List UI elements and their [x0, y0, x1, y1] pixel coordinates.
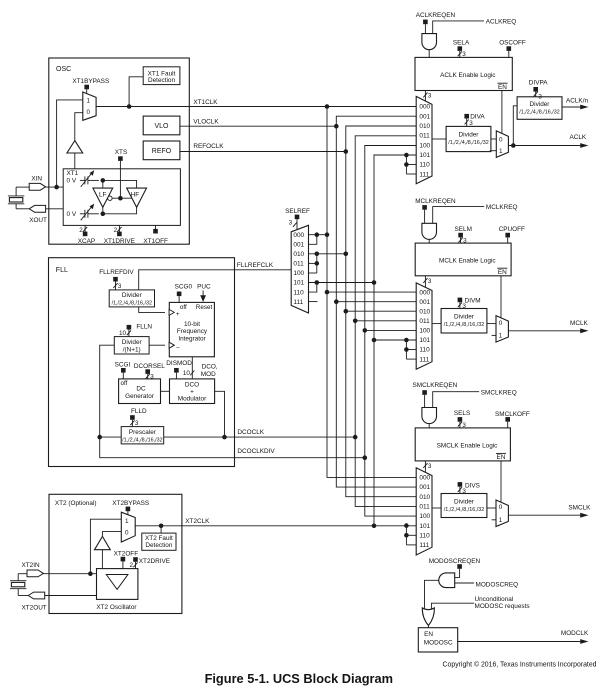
- svg-text:1: 1: [87, 98, 91, 105]
- svg-text:Frequency: Frequency: [177, 328, 208, 335]
- node dot: [353, 319, 358, 324]
- SMCLK Enable Logic box: [415, 428, 510, 461]
- svg-text:001: 001: [419, 113, 430, 120]
- svg-text:010: 010: [419, 123, 430, 130]
- node bottom cap dot: [101, 212, 106, 217]
- node SELREF 011 tie dot: [315, 261, 320, 266]
- amp HF: [127, 188, 147, 207]
- svg-text:001: 001: [419, 484, 430, 491]
- svg-text:+: +: [176, 311, 180, 318]
- SCG1 pin square: [121, 368, 126, 373]
- wire MCLK out: [508, 320, 588, 333]
- gate AND SMCLK request: [422, 408, 437, 424]
- wire failsafe input1 stub: [490, 150, 497, 152]
- wire divider to failsafe mux: [491, 138, 496, 140]
- node V1 top dot: [325, 104, 330, 109]
- wire OR out: [427, 626, 429, 628]
- XT2 Oscillator box: [96, 569, 137, 611]
- wire MODOSCREQEN: [455, 569, 460, 578]
- wire DIVS select: [458, 487, 467, 495]
- svg-text:100: 100: [293, 270, 304, 277]
- capacitor XT1 top: [80, 170, 99, 187]
- svg-text:SMCLKREQEN: SMCLKREQEN: [413, 382, 458, 389]
- wire CPUOFF: [507, 237, 509, 243]
- svg-text:XT2IN: XT2IN: [22, 562, 40, 569]
- wire MCLK 110/111 tie: [406, 340, 416, 359]
- svg-text:SMCLK Enable Logic: SMCLK Enable Logic: [437, 442, 499, 449]
- wire XTS select: [119, 161, 121, 198]
- divider DIVM: [441, 309, 487, 334]
- wire MCLK in 101: [374, 339, 416, 341]
- wire DC gen to DCO: [161, 390, 170, 392]
- bus XT2CLK vertical: [374, 155, 416, 526]
- svg-text:10: 10: [119, 330, 127, 337]
- wire divider to integrator plus: [139, 307, 165, 313]
- wire SELREF in 110 tie: [309, 283, 317, 293]
- SMCLKREQEN label: [413, 382, 458, 389]
- REFO box: [143, 141, 180, 160]
- mux XT2 bypass: [121, 512, 135, 542]
- FLLREFDIV label: [99, 269, 134, 276]
- MCLKREQEN pin square: [422, 205, 427, 210]
- XT1BYPASS label: [72, 78, 109, 85]
- wire XT2IN to mux input 1: [90, 519, 121, 574]
- XT2OUT label: [22, 605, 47, 612]
- svg-text:Copyright © 2016, Texas Instru: Copyright © 2016, Texas Instruments Inco…: [443, 661, 597, 669]
- svg-text:REFOCLK: REFOCLK: [193, 143, 224, 150]
- ACLKREQEN label: [416, 12, 456, 19]
- wire divider to failsafe mux: [487, 323, 496, 325]
- XT1 oscillator box: [63, 169, 180, 226]
- FLLD label: [131, 408, 147, 415]
- svg-text:ACLK: ACLK: [570, 134, 587, 141]
- svg-text:3: 3: [428, 278, 432, 285]
- svg-text:101: 101: [419, 152, 430, 159]
- divider FLLREFDIV: [109, 290, 154, 307]
- svg-text:3: 3: [538, 94, 542, 101]
- wire AND to enable: [428, 239, 430, 243]
- pad XT2IN: [27, 570, 43, 577]
- FLLREFDIV pin square: [113, 277, 118, 282]
- wire DCOCLKDIV: [100, 437, 365, 458]
- wire XT2BYPASS select: [127, 511, 129, 515]
- XTS pin square: [118, 156, 123, 161]
- copyright note: [443, 661, 597, 669]
- mux SMCLK failsafe: [496, 500, 508, 527]
- svg-text:001: 001: [419, 299, 430, 306]
- wire XT2OUT: [45, 595, 97, 597]
- bus REFOCLK vertical: [346, 126, 416, 497]
- FLLN label: [136, 324, 152, 331]
- wire ACLK select 3: [423, 91, 432, 102]
- svg-text:CPUOFF: CPUOFF: [499, 226, 525, 233]
- svg-text:XT2 Fault: XT2 Fault: [145, 535, 173, 542]
- MODOSCREQEN label: [429, 558, 481, 565]
- svg-text:XT1DRIVE: XT1DRIVE: [104, 238, 135, 245]
- svg-text:Unconditional: Unconditional: [475, 596, 514, 603]
- SELREF label: [285, 208, 310, 215]
- svg-text:111: 111: [419, 542, 429, 549]
- svg-text:OSCOFF: OSCOFF: [499, 39, 526, 46]
- svg-text:2: 2: [129, 562, 133, 569]
- divider /(N+1): [114, 337, 149, 354]
- divider DIVPA: [517, 94, 562, 120]
- svg-text:XT2OFF: XT2OFF: [114, 550, 139, 557]
- mux SMCLK source: [416, 468, 432, 555]
- wire SMCLK 110/111 tie: [405, 526, 407, 545]
- svg-text:MCLK: MCLK: [570, 320, 588, 327]
- node MCLK tie dot1: [404, 338, 409, 343]
- node DCO join dot: [222, 435, 227, 440]
- svg-text:3: 3: [135, 420, 139, 427]
- svg-text:XT2 (Optional): XT2 (Optional): [55, 500, 97, 507]
- wire XIN: [46, 186, 64, 188]
- FLLD pin square: [130, 415, 135, 420]
- XT2OFF label: [114, 550, 139, 557]
- svg-text:/1,/2,/4,/8,/16,/32: /1,/2,/4,/8,/16,/32: [444, 507, 484, 513]
- SCG1 label: [115, 362, 131, 369]
- XT2 block box: [49, 494, 182, 613]
- XT1 Fault Detection box: [143, 67, 180, 85]
- node dot: [363, 328, 368, 333]
- wire SELREF in 011 tie: [309, 254, 317, 273]
- node VLOCLK dot: [334, 124, 339, 129]
- SMCLKOFF pin square: [505, 417, 510, 422]
- wire LF apex down: [102, 207, 104, 214]
- svg-text:SELREF: SELREF: [285, 208, 310, 215]
- gate AND MODOSC request: [439, 573, 455, 588]
- svg-text:FLLREFDIV: FLLREFDIV: [99, 269, 134, 276]
- svg-text:0: 0: [499, 136, 503, 143]
- svg-text:HF: HF: [131, 191, 140, 198]
- svg-text:off: off: [121, 380, 128, 387]
- svg-text:000: 000: [419, 104, 430, 111]
- MCLKREQEN label: [415, 198, 456, 205]
- svg-text:001: 001: [293, 242, 304, 249]
- svg-text:MODOSC: MODOSC: [424, 640, 453, 647]
- wire SELM: [459, 237, 468, 244]
- wire XOUT: [46, 208, 64, 210]
- DCO + Modulator box: [170, 379, 215, 404]
- amp LF: [93, 188, 113, 207]
- svg-text:FLL: FLL: [56, 267, 68, 274]
- svg-text:111: 111: [419, 356, 429, 363]
- wire SMCLK mux out: [432, 507, 441, 509]
- XT2 Fault Detection box: [142, 533, 176, 550]
- XT2IN label: [22, 562, 40, 569]
- wire FLLREFDIV select: [113, 282, 122, 290]
- mux MCLK failsafe: [496, 316, 508, 343]
- DIVA label: [470, 113, 485, 120]
- wire divider to failsafe mux: [487, 507, 496, 509]
- svg-text:SMCLK: SMCLK: [568, 504, 591, 511]
- mux XT1 bypass: [83, 92, 96, 120]
- wire MCLK in 010: [346, 310, 416, 312]
- wire VLOCLK: [180, 118, 336, 126]
- wire N+1 out to integrator minus: [149, 344, 165, 346]
- FLL block box: [49, 258, 235, 467]
- wire DIVM select: [458, 302, 467, 310]
- gate AND MCLK request: [422, 223, 437, 239]
- wire top dot down to LF: [102, 180, 104, 188]
- wire SELREF in 000: [309, 234, 328, 236]
- svg-text:10-bit: 10-bit: [184, 321, 200, 328]
- svg-text:110: 110: [293, 289, 304, 296]
- node DCOCLKDIV bus dot: [363, 455, 368, 460]
- node XT2 fault dot: [159, 524, 164, 529]
- XT1 label: [67, 170, 79, 185]
- wire MCLK select 3: [423, 276, 432, 288]
- svg-text:DIVPA: DIVPA: [529, 80, 548, 87]
- wire prescaler out left: [100, 436, 122, 438]
- node top cap dot: [101, 178, 106, 183]
- DIVS pin square: [458, 482, 463, 487]
- wire XT2IN: [43, 573, 96, 575]
- XIN label: [31, 175, 42, 182]
- svg-text:FLLREFCLK: FLLREFCLK: [237, 262, 274, 269]
- MODOSCREQEN pin square: [457, 564, 462, 569]
- svg-text:DIVS: DIVS: [465, 483, 480, 490]
- VLO box: [143, 116, 180, 135]
- SMCLKREQEN pin square: [422, 390, 427, 395]
- wire SMCLKREQ: [433, 389, 517, 407]
- DCORSEL pin square: [145, 369, 150, 374]
- SELS pin square: [458, 417, 463, 422]
- svg-text:3: 3: [428, 93, 432, 100]
- svg-text:VLO: VLO: [154, 123, 169, 130]
- node XIN dot: [54, 185, 59, 190]
- XT2DRIVE pin square: [133, 557, 138, 562]
- wire XT2OFF: [122, 561, 124, 568]
- mux ACLK failsafe: [496, 131, 508, 158]
- wire feedback to N+1: [100, 345, 115, 437]
- svg-text:MCLK Enable Logic: MCLK Enable Logic: [439, 257, 496, 264]
- svg-text:/1,/2,/4,/8,/16,/32: /1,/2,/4,/8,/16,/32: [122, 437, 162, 443]
- svg-text:DC: DC: [136, 386, 146, 393]
- crystal XT2: [10, 574, 28, 596]
- mux ACLK source: [416, 96, 432, 183]
- gate AND ACLK request: [422, 34, 437, 50]
- wire MODCLK: [458, 630, 589, 644]
- svg-text:2: 2: [79, 227, 83, 234]
- divider DIVS: [441, 494, 487, 518]
- pad XOUT: [29, 205, 45, 212]
- svg-text:DCOCLKDIV: DCOCLKDIV: [237, 448, 275, 455]
- divider DIVA: [446, 126, 491, 151]
- SMCLKOFF label: [495, 411, 530, 418]
- mux MCLK source: [416, 283, 432, 369]
- wire SELS: [458, 422, 467, 429]
- svg-text:100: 100: [419, 513, 430, 520]
- svg-text:100: 100: [419, 142, 430, 149]
- svg-text:3: 3: [289, 219, 293, 226]
- wire FLLREFCLK: [139, 262, 292, 290]
- wire ACLK 110/111 tie: [406, 155, 416, 174]
- svg-text:1: 1: [499, 517, 503, 524]
- wire failsafe input1 stub: [492, 519, 496, 521]
- wire XT2DRIVE: [129, 562, 137, 569]
- XT2DRIVE label: [139, 558, 170, 565]
- PUC label: [197, 284, 211, 291]
- DCORSEL label: [134, 363, 165, 370]
- svg-text:Divider: Divider: [454, 499, 475, 506]
- crystal XT1: [8, 187, 29, 209]
- svg-text:Divider: Divider: [454, 314, 475, 321]
- svg-text:XT1BYPASS: XT1BYPASS: [72, 78, 109, 85]
- svg-text:EN: EN: [424, 631, 433, 638]
- figure caption: [205, 671, 393, 686]
- svg-text:3: 3: [428, 463, 432, 470]
- DIVA pin square: [464, 114, 469, 119]
- svg-text:XT2DRIVE: XT2DRIVE: [139, 558, 170, 565]
- pin XT1DRIVE: [104, 225, 135, 245]
- OSCOFF pin square: [507, 46, 512, 51]
- wire buffer to mux input 0: [75, 113, 83, 141]
- node XT2IN dot: [88, 571, 93, 576]
- svg-text:/1,/2,/4,/8,/16,/32: /1,/2,/4,/8,/16,/32: [519, 110, 559, 116]
- wire SELREF select: [289, 219, 298, 229]
- svg-text:ACLKREQ: ACLKREQ: [486, 19, 517, 26]
- svg-text:EN: EN: [497, 454, 506, 461]
- wire ACLK mux out: [432, 138, 446, 140]
- wire fault tap: [160, 526, 162, 533]
- pad XT2OUT: [28, 592, 44, 599]
- svg-text:010: 010: [419, 494, 430, 501]
- svg-text:FLLN: FLLN: [136, 324, 152, 331]
- wire XT1BYPASS select: [86, 89, 88, 93]
- wire integrator to DCO: [190, 357, 194, 379]
- SELM pin square: [458, 233, 463, 238]
- wire MCLK in 000: [327, 291, 416, 293]
- svg-text:Divider: Divider: [122, 292, 143, 299]
- DIVM label: [465, 297, 481, 304]
- svg-text:DISMOD: DISMOD: [166, 360, 192, 367]
- CPUOFF pin square: [505, 233, 510, 238]
- wire AND to enable: [428, 424, 430, 428]
- svg-text:110: 110: [419, 162, 430, 169]
- svg-text:/1,/2,/4,/8,/16,/32: /1,/2,/4,/8,/16,/32: [444, 322, 484, 328]
- svg-text:XT2 Oscillator: XT2 Oscillator: [96, 604, 137, 611]
- svg-text:SMCLKREQ: SMCLKREQ: [481, 389, 517, 396]
- svg-text:1: 1: [499, 148, 503, 155]
- svg-text:0: 0: [499, 504, 503, 511]
- svg-text:010: 010: [293, 251, 304, 258]
- svg-text:/1,/2,/4,/8,/16,/32: /1,/2,/4,/8,/16,/32: [448, 140, 488, 146]
- node SELREF 101 tie dot: [315, 280, 320, 285]
- wire DISMOD: [175, 373, 177, 379]
- svg-text:011: 011: [419, 133, 430, 140]
- svg-text:MCLKREQEN: MCLKREQEN: [415, 198, 456, 205]
- wire FLLD select: [130, 420, 139, 427]
- svg-text:SELM: SELM: [455, 226, 472, 233]
- wire DIVA select: [465, 119, 474, 127]
- wire DCORSEL: [146, 373, 155, 380]
- wire SELREF in 100 tie: [309, 272, 317, 274]
- svg-text:Divider: Divider: [122, 339, 143, 346]
- MODOSC box: [418, 628, 457, 652]
- wire MCLK in 001: [336, 301, 416, 303]
- svg-text:111: 111: [293, 299, 303, 306]
- wire ACLKREQEN: [424, 24, 426, 33]
- svg-text:off: off: [180, 304, 187, 311]
- wire SMCLKOFF: [507, 422, 509, 428]
- gate OR modosc: [422, 608, 434, 626]
- svg-text:Prescaler: Prescaler: [129, 429, 157, 436]
- node XTS dot: [118, 196, 123, 201]
- svg-text:000: 000: [293, 232, 304, 239]
- capacitor XT1 bottom: [80, 204, 99, 221]
- bus DCOCLKDIV vertical: [365, 146, 416, 517]
- svg-text:101: 101: [419, 337, 430, 344]
- svg-text:XT1OFF: XT1OFF: [143, 238, 168, 245]
- svg-text:EN: EN: [498, 269, 507, 276]
- wire PUC: [200, 291, 206, 303]
- svg-text:XOUT: XOUT: [29, 217, 47, 224]
- wire REFOCLK: [180, 143, 346, 151]
- wire DIVPA select: [534, 92, 538, 97]
- svg-text:SELS: SELS: [454, 410, 470, 417]
- svg-text:Detection: Detection: [148, 77, 175, 84]
- svg-text:ACLKREQEN: ACLKREQEN: [416, 12, 456, 19]
- DISMOD label: [166, 360, 192, 367]
- wire top cap to HF: [103, 180, 137, 188]
- svg-text:/(N+1): /(N+1): [123, 347, 141, 354]
- SELA pin square: [458, 46, 463, 51]
- DC Generator box: [119, 379, 161, 404]
- DIVPA label: [529, 80, 548, 87]
- wire MCLK in 011: [355, 320, 416, 322]
- pin XCAP: [78, 225, 95, 245]
- XTS label: [115, 149, 127, 156]
- wire MODOSCREQ: [455, 581, 518, 588]
- node ACLK tie dot2: [404, 162, 409, 167]
- wire SMCLK in 111: [406, 544, 416, 546]
- svg-text:SELA: SELA: [453, 39, 470, 46]
- svg-text:XT1CLK: XT1CLK: [193, 99, 218, 106]
- SELS label: [454, 410, 470, 417]
- svg-text:0 V: 0 V: [67, 178, 77, 185]
- svg-text:Reset: Reset: [196, 304, 213, 311]
- svg-text:XT2BYPASS: XT2BYPASS: [112, 500, 149, 507]
- svg-text:000: 000: [419, 475, 430, 482]
- wire SMCLKREQEN: [424, 395, 426, 408]
- svg-text:111: 111: [419, 171, 429, 178]
- mux SELREF: [291, 225, 308, 313]
- SELM label: [455, 226, 472, 233]
- wire unconditional requests: [431, 596, 529, 610]
- svg-text:DCORSEL: DCORSEL: [134, 363, 165, 370]
- wire DCO out: [215, 391, 225, 437]
- svg-text:OSC: OSC: [56, 66, 71, 73]
- svg-text:0: 0: [87, 109, 91, 116]
- DIVPA pin square: [533, 87, 538, 92]
- wire SMCLK out: [508, 504, 591, 517]
- svg-text:Integrator: Integrator: [178, 335, 206, 342]
- svg-text:DIVM: DIVM: [465, 297, 481, 304]
- wire SELREF in 010: [309, 253, 346, 255]
- svg-text:101: 101: [293, 280, 304, 287]
- bus XT1CLK vertical: [327, 107, 416, 478]
- FLLN pin square: [127, 325, 132, 330]
- wire buffer base down: [101, 550, 103, 569]
- node dot: [334, 299, 339, 304]
- svg-text:011: 011: [419, 504, 430, 511]
- node XT2CLK bus dot: [372, 524, 377, 529]
- svg-text:3: 3: [469, 120, 473, 127]
- svg-text:REFO: REFO: [152, 148, 172, 155]
- node fault tap dot: [127, 104, 132, 109]
- wire SMCLK select 3: [423, 461, 432, 473]
